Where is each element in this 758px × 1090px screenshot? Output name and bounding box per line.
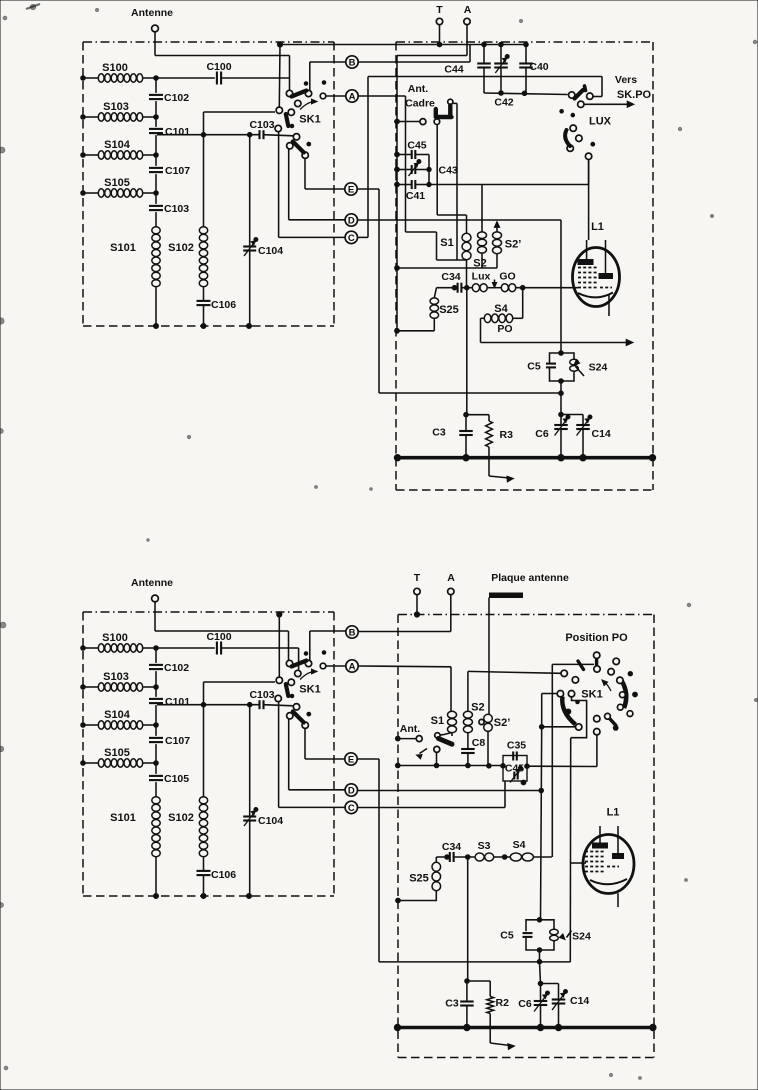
wire S1 to C3 branch <box>466 260 468 415</box>
wire C100' riser <box>290 648 299 670</box>
wire grid feed <box>570 738 586 962</box>
coil S2' (bottom) <box>479 714 510 731</box>
node A <box>346 90 358 103</box>
left coil-unit dashed enclosure <box>83 612 334 896</box>
wire Cadre top to S1 return <box>453 103 457 260</box>
switch SK1 section 1 lever <box>292 91 307 97</box>
svg-text:C5: C5 <box>527 361 541 373</box>
svg-text:S105: S105 <box>104 747 130 759</box>
capacitor C105 <box>149 773 189 785</box>
svg-text:S103: S103 <box>103 671 129 683</box>
coil S1 <box>440 233 471 259</box>
tube L1 (bottom) <box>583 807 634 908</box>
svg-text:C100: C100 <box>206 61 231 73</box>
capacitor C14 (bottom) <box>541 984 590 1028</box>
svg-text:S1: S1 <box>440 237 453 249</box>
plaque antenne <box>489 572 569 714</box>
wire antenna lead <box>154 32 156 56</box>
terminal A <box>464 4 472 56</box>
svg-text:C104: C104 <box>258 815 283 827</box>
svg-text:S105: S105 <box>104 177 130 189</box>
wire bottom bus <box>395 732 503 768</box>
svg-text:Vers: Vers <box>615 74 637 86</box>
arrow PO out <box>481 318 634 345</box>
svg-text:C106: C106 <box>211 869 236 881</box>
switch SK1 rotary left contacts <box>557 691 575 697</box>
switch SK1 rotation arrow <box>602 680 611 691</box>
svg-text:Plaque antenne: Plaque antenne <box>491 572 569 584</box>
svg-text:B: B <box>349 627 356 638</box>
wire A to S1 <box>358 96 467 260</box>
svg-text:C44: C44 <box>444 64 463 76</box>
wire D line left <box>289 149 345 220</box>
svg-text:S2’: S2’ <box>505 239 522 251</box>
svg-text:C101: C101 <box>165 696 190 708</box>
svg-text:S24: S24 <box>589 362 608 374</box>
capacitor C103 (switch coupling) <box>157 119 293 139</box>
arrow S1 wiper <box>417 749 428 759</box>
svg-text:S104: S104 <box>104 139 131 151</box>
capacitor C14 (variable) <box>561 415 611 458</box>
svg-text:C41: C41 <box>406 190 425 202</box>
wire E' line <box>357 759 570 962</box>
wire D' line <box>358 788 544 793</box>
wire S102 riser <box>204 682 276 797</box>
label Position PO <box>565 632 628 644</box>
wire antenna bus <box>155 56 290 91</box>
node B' <box>346 626 358 639</box>
switch SK1 rotary left rotor <box>562 697 582 731</box>
coil S104 <box>81 709 159 729</box>
capacitor C103 <box>149 203 189 215</box>
capacitor C5 with coil S24 (bottom) <box>500 918 591 965</box>
svg-text:E: E <box>348 754 354 765</box>
terminal T (bottom) <box>414 572 421 617</box>
svg-text:S103: S103 <box>103 101 129 113</box>
svg-text:R2: R2 <box>496 997 510 1009</box>
svg-text:S2’: S2’ <box>494 717 511 729</box>
tube L1 (top) <box>573 221 620 316</box>
capacitor C45 variable element <box>510 766 526 785</box>
wire antenna lead <box>154 602 156 626</box>
coil S100 <box>81 62 159 82</box>
svg-text:S104: S104 <box>104 709 131 721</box>
node A pickup contact <box>320 93 346 99</box>
wire D line left <box>289 719 345 790</box>
switch SK1' section 2 contacts <box>275 677 294 702</box>
coil S25 <box>395 288 459 333</box>
wire S2 to SK1 contact <box>468 670 567 676</box>
resistor R2 <box>467 981 509 1028</box>
wire top bus drop <box>278 45 281 108</box>
antenna Cadre pickup <box>395 83 453 125</box>
wire E contact riser <box>305 729 345 760</box>
capacitor C101 <box>149 696 190 708</box>
svg-text:L1: L1 <box>591 221 604 233</box>
svg-text:S102: S102 <box>168 242 194 254</box>
node E <box>345 183 357 196</box>
capacitor C41 <box>395 180 432 202</box>
capacitor C34 (bottom) <box>436 841 475 862</box>
svg-text:C102: C102 <box>164 662 189 674</box>
coil S4 <box>481 288 523 335</box>
capacitor C107 <box>149 165 190 177</box>
capacitor C101 <box>149 126 190 138</box>
wire B riser <box>310 62 346 90</box>
svg-text:C45: C45 <box>407 140 426 152</box>
wire E contact riser <box>305 159 345 190</box>
svg-text:S4: S4 <box>494 303 508 315</box>
svg-text:C100: C100 <box>206 631 231 643</box>
capacitor C102 <box>149 662 189 674</box>
svg-text:Position PO: Position PO <box>565 632 628 644</box>
arrow R3 ground <box>489 458 514 482</box>
antenna terminal <box>131 7 173 32</box>
switch SK1 rotary lower contacts <box>594 713 619 735</box>
svg-text:C3: C3 <box>432 427 446 439</box>
capacitor C34 <box>437 271 473 293</box>
switch SK1 rotary top contacts <box>572 652 632 683</box>
coil S25 (bottom) <box>396 857 441 903</box>
coil S103 <box>81 671 159 691</box>
coil S1 (bottom) <box>431 711 457 736</box>
antenna terminal <box>131 577 173 602</box>
terminal A (bottom) <box>447 572 455 632</box>
svg-text:C34: C34 <box>442 841 461 853</box>
node E' <box>345 753 357 766</box>
wire C-line loop <box>368 77 602 238</box>
wire D line right <box>358 220 562 353</box>
wire C contact riser <box>279 702 345 808</box>
capacitor C8 <box>461 733 485 766</box>
svg-text:C8: C8 <box>472 737 486 749</box>
coil Lux <box>472 271 501 292</box>
switch SK1' rotation arrow <box>300 669 317 679</box>
svg-text:S100: S100 <box>102 632 128 644</box>
switch LUX lever <box>565 130 570 146</box>
wire C5 to C6 <box>559 381 564 417</box>
coil S100 <box>81 632 159 652</box>
wire A-terminal feed <box>397 56 467 122</box>
capacitor C104 (variable) <box>243 132 283 328</box>
wire S2 return <box>395 266 497 271</box>
node D <box>345 214 357 227</box>
svg-text:R3: R3 <box>500 429 514 441</box>
svg-text:Ant.: Ant. <box>408 83 428 95</box>
svg-text:S4: S4 <box>513 839 526 851</box>
svg-text:C107: C107 <box>165 165 190 177</box>
svg-text:S101: S101 <box>110 242 136 254</box>
wire Cadre to S1 <box>437 125 466 234</box>
coil S2 <box>473 185 486 270</box>
svg-text:C6: C6 <box>535 428 549 440</box>
svg-text:C104: C104 <box>258 245 283 257</box>
wire SK1 staircase <box>571 697 587 738</box>
capacitor C102 <box>149 92 189 104</box>
svg-text:LUX: LUX <box>589 116 612 128</box>
svg-text:S101: S101 <box>110 812 136 824</box>
capacitor C45 <box>395 140 429 160</box>
capacitor C5 with coil S24 <box>527 351 607 384</box>
capacitor C45 box <box>501 735 597 781</box>
wire top edge drop (bottom) <box>277 612 282 677</box>
wire C node right <box>358 236 369 238</box>
label LUX <box>589 116 612 128</box>
wire LUX to tube plate <box>587 160 589 259</box>
svg-text:S1: S1 <box>431 715 444 727</box>
wire C45 bank rail <box>397 122 429 332</box>
svg-text:C42: C42 <box>494 97 513 109</box>
capacitor C42 (variable) <box>494 45 514 109</box>
svg-text:SK1: SK1 <box>581 689 602 701</box>
svg-text:S25: S25 <box>439 304 459 316</box>
capacitor C106 <box>197 287 237 329</box>
svg-text:C35: C35 <box>507 740 526 752</box>
wire B' riser <box>310 631 346 660</box>
svg-text:SK1: SK1 <box>299 684 320 696</box>
svg-text:C3: C3 <box>445 998 459 1010</box>
coil S105 <box>81 177 159 197</box>
wire tuning rail <box>155 78 157 227</box>
svg-text:C102: C102 <box>164 92 189 104</box>
svg-text:A: A <box>349 661 356 672</box>
wire top solid bus <box>277 42 528 47</box>
node C' <box>345 801 357 814</box>
svg-text:C103: C103 <box>249 689 274 701</box>
svg-text:C5: C5 <box>500 930 514 942</box>
svg-text:C43: C43 <box>439 165 458 177</box>
svg-text:C34: C34 <box>441 271 460 283</box>
wire B' to A terminal <box>358 631 451 633</box>
svg-text:Antenne: Antenne <box>131 577 173 589</box>
svg-text:S25: S25 <box>409 873 429 885</box>
wire S4 riser to contact <box>552 664 594 857</box>
switch LUX contacts <box>560 110 595 160</box>
wire antenna bus (bottom) <box>155 626 289 661</box>
coil S105 <box>81 747 159 767</box>
svg-text:T: T <box>414 572 421 584</box>
switch SK1' section 3 lever <box>293 712 304 723</box>
node C <box>345 231 357 244</box>
switch SK1 section 2 lever <box>286 114 289 126</box>
switch SK1 rotary right rotor <box>617 677 638 716</box>
svg-text:Ant.: Ant. <box>400 723 420 735</box>
node B <box>346 56 358 69</box>
capacitor C43 (variable) <box>395 160 458 177</box>
coil S102 <box>168 227 208 287</box>
wire C42 bus <box>484 91 568 96</box>
coil S2' <box>493 222 522 269</box>
svg-text:S102: S102 <box>168 812 194 824</box>
wire E line right <box>357 189 560 393</box>
coil S101 <box>110 227 160 329</box>
svg-text:S24: S24 <box>572 931 591 943</box>
switch SK1' section 1 contacts <box>286 651 326 677</box>
svg-text:S3: S3 <box>478 840 491 852</box>
switch S1 lever <box>434 733 452 753</box>
switch SK1 label <box>299 114 320 126</box>
switch SK1' section 2 lever <box>286 684 289 696</box>
svg-text:C14: C14 <box>592 428 611 440</box>
svg-text:C107: C107 <box>165 735 190 747</box>
coil GO <box>499 271 578 292</box>
arrow to SK.PO <box>584 101 634 107</box>
node D' <box>345 784 357 797</box>
svg-text:B: B <box>349 57 356 68</box>
capacitor C107 <box>149 735 190 747</box>
capacitor C106 <box>197 857 237 899</box>
svg-text:A: A <box>464 4 472 16</box>
coil S2 (bottom) <box>463 671 484 732</box>
switch SK1 section 3 contacts <box>287 134 311 159</box>
label Vers SK.PO <box>615 74 652 101</box>
switch SK1 section 2 contacts <box>275 107 294 132</box>
capacitor C103 (switch coupling) <box>157 689 293 709</box>
right unit dashed enclosure (top) <box>396 42 653 490</box>
capacitor C3 <box>432 412 472 460</box>
wire B to T-bus <box>358 45 470 63</box>
svg-text:L1: L1 <box>607 807 620 819</box>
svg-text:Antenne: Antenne <box>131 7 173 19</box>
coil S102 <box>168 797 208 857</box>
svg-text:C6: C6 <box>518 998 532 1010</box>
wire tuning rail <box>155 648 157 797</box>
svg-text:A: A <box>447 572 455 584</box>
svg-text:C105: C105 <box>164 773 189 785</box>
capacitor C6 (variable) <box>535 415 570 458</box>
svg-text:D: D <box>348 215 355 226</box>
wire C41 row to S2 and LUX <box>429 160 589 185</box>
coil S101 <box>110 797 160 899</box>
capacitor C100 <box>156 631 290 655</box>
left coil-unit dashed enclosure <box>83 42 334 326</box>
svg-text:C14: C14 <box>570 995 589 1007</box>
capacitor C40 <box>519 45 549 94</box>
arrow R2 ground <box>490 1028 514 1050</box>
svg-text:C106: C106 <box>211 299 236 311</box>
wire C3' branch <box>465 857 470 983</box>
wire C contact riser <box>279 132 345 238</box>
capacitor C35 <box>507 740 526 761</box>
svg-text:PO: PO <box>497 323 512 335</box>
switch SK1' section 1 lever <box>292 661 307 667</box>
capacitor C6 (bottom) <box>518 962 549 1028</box>
svg-text:Cadre: Cadre <box>405 98 435 110</box>
svg-text:T: T <box>436 4 443 16</box>
svg-text:S100: S100 <box>102 62 128 74</box>
switch SK1 (rotary) label <box>581 689 602 701</box>
capacitor C104 (variable) <box>243 702 283 898</box>
capacitor C44 <box>444 45 490 94</box>
wire SK1 to D chain <box>539 694 575 920</box>
ground bus (top) <box>394 455 655 461</box>
svg-text:C103: C103 <box>164 203 189 215</box>
svg-text:C101: C101 <box>165 126 190 138</box>
wire C' line <box>358 781 506 808</box>
switch Vers SK.PO <box>569 86 594 108</box>
svg-text:D: D <box>348 785 355 796</box>
wire S102 riser <box>204 112 276 227</box>
svg-text:GO: GO <box>499 271 515 283</box>
svg-text:C: C <box>348 233 355 244</box>
node A' pickup contact <box>320 663 346 669</box>
wire A' to S1 <box>358 666 451 711</box>
svg-text:SK.PO: SK.PO <box>617 89 652 101</box>
ground bus (bottom) <box>394 1024 656 1030</box>
coil S3 <box>475 840 494 861</box>
switch SK1 rotation arrow <box>300 99 317 109</box>
coil S104 <box>81 139 159 159</box>
terminal T <box>436 4 443 45</box>
capacitor C100 <box>156 61 290 85</box>
svg-text:Lux: Lux <box>472 271 491 283</box>
resistor R3 <box>466 415 513 458</box>
node A' <box>346 660 358 673</box>
switch SK1' section 3 contacts <box>287 704 311 729</box>
svg-text:C103: C103 <box>249 119 274 131</box>
switch SK1 section 3 lever <box>293 142 304 153</box>
switch SK1' label <box>299 684 320 696</box>
svg-text:S2: S2 <box>471 702 484 714</box>
antenna contact (bottom) <box>395 723 422 742</box>
svg-text:C: C <box>348 803 355 814</box>
svg-text:E: E <box>348 184 354 195</box>
coil S4 (bottom) <box>494 839 552 861</box>
capacitor C3 (bottom) <box>445 981 473 1030</box>
right unit dashed enclosure (bottom) <box>398 615 654 1058</box>
switch SK1 section 1 contacts <box>286 81 326 107</box>
coil S103 <box>81 101 159 121</box>
svg-text:SK1: SK1 <box>299 114 320 126</box>
svg-text:A: A <box>349 91 356 102</box>
